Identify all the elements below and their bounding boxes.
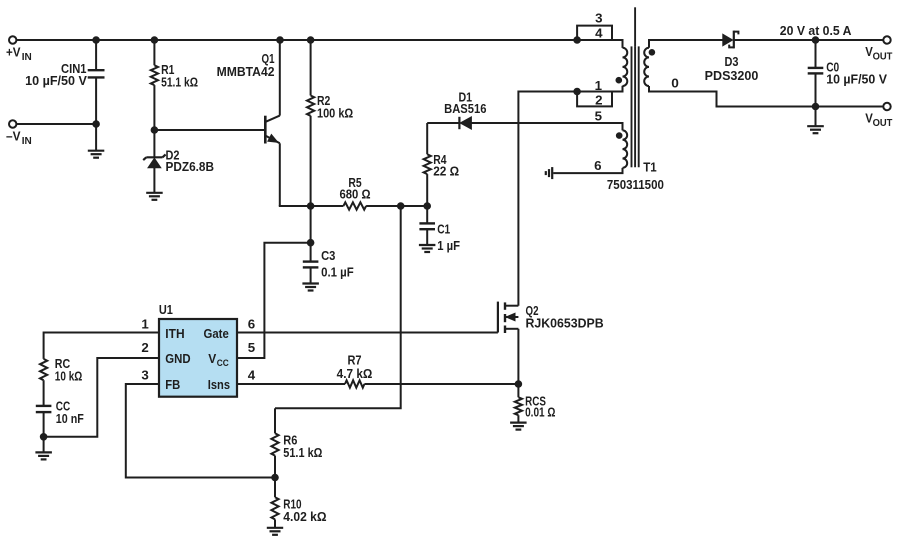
- label RC 10 kOhm: [55, 356, 83, 383]
- junction R2 bottom: [307, 202, 315, 210]
- transformer T1 pins 3-4 loop: [577, 26, 612, 40]
- label Q2 RJK0653DPB: [526, 303, 604, 331]
- resistor RC: [40, 359, 47, 405]
- svg-text:GND: GND: [165, 351, 191, 366]
- svg-text:750311500: 750311500: [607, 177, 664, 192]
- svg-text:+V: +V: [6, 45, 21, 59]
- junction C0 top: [812, 36, 820, 44]
- resistor R4: [424, 123, 431, 206]
- svg-text:C1: C1: [437, 222, 450, 237]
- ground (R10): [267, 528, 283, 535]
- label R4 22 Ohm: [433, 152, 459, 178]
- svg-text:0.1 µF: 0.1 µF: [321, 264, 354, 279]
- label R2 100 kOhm: [317, 93, 353, 121]
- svg-text:1: 1: [141, 316, 149, 331]
- label D3 PDS3200: [705, 54, 759, 83]
- svg-text:IN: IN: [22, 136, 32, 147]
- svg-text:0.01 Ω: 0.01 Ω: [525, 405, 556, 420]
- ground (CC): [35, 452, 52, 459]
- label CIN1: [25, 61, 87, 88]
- resistor R6: [271, 408, 278, 477]
- label C1 1uF: [437, 222, 460, 253]
- junction R5/R6 node: [397, 202, 405, 210]
- svg-text:10 µF/50 V: 10 µF/50 V: [25, 73, 87, 88]
- label RCS 0.01 Ohm: [525, 394, 556, 420]
- svg-text:BAS516: BAS516: [444, 101, 486, 116]
- wire Gate: pin 6 to Q2 gate: [237, 332, 498, 334]
- svg-text:CC: CC: [217, 358, 229, 369]
- svg-text:22 Ω: 22 Ω: [433, 163, 459, 178]
- svg-text:4: 4: [595, 26, 603, 41]
- svg-text:6: 6: [594, 158, 601, 173]
- junction CIN1 bottom -VIN: [92, 120, 100, 128]
- ground (C3): [302, 284, 319, 291]
- svg-text:U1: U1: [159, 302, 173, 317]
- T1 primary winding 4-1: [623, 40, 628, 92]
- label VOUT bottom: [865, 111, 892, 129]
- resistor R5: [343, 202, 366, 209]
- ground (RCS): [510, 423, 526, 430]
- T1 primary phase dot: [616, 77, 623, 84]
- label +VIN: [6, 45, 32, 63]
- wire FB: pin 3 to R6/R10 node: [126, 384, 275, 478]
- T1 secondary winding: [644, 48, 649, 86]
- junction Q1 collector top: [276, 36, 284, 44]
- label D1 BAS516: [444, 89, 486, 116]
- capacitor CIN1: [88, 40, 105, 151]
- U1 pin name VCC: [208, 351, 229, 369]
- junction pin1 wire: [573, 88, 581, 96]
- svg-text:20 V at 0.5 A: 20 V at 0.5 A: [780, 23, 852, 38]
- resistor RCS: [515, 384, 522, 423]
- T1 secondary phase dot: [649, 49, 656, 56]
- svg-text:1: 1: [595, 78, 603, 93]
- wire Q2 drain to transformer pins 1/2: [518, 86, 622, 306]
- capacitor C3: [303, 206, 319, 284]
- resistor R7: [345, 380, 364, 387]
- svg-text:10 µF/50 V: 10 µF/50 V: [826, 72, 887, 87]
- label CC 10 nF: [56, 399, 84, 426]
- wire Q1 base: [154, 129, 264, 131]
- terminal VOUT bottom: [883, 103, 890, 110]
- wire D3 cathode to VOUT: [734, 39, 884, 41]
- svg-text:2: 2: [595, 92, 602, 107]
- ground (D2): [146, 193, 163, 200]
- terminal -VIN: [9, 120, 16, 127]
- junction C3/Vcc node: [307, 239, 315, 247]
- MOSFET Q2: [498, 302, 519, 384]
- svg-text:RJK0653DPB: RJK0653DPB: [526, 315, 604, 330]
- wire R5R4 node down to R6: [275, 206, 401, 408]
- wire D1 cathode side: [471, 123, 622, 130]
- ground (T1 pin 6, rotated): [546, 167, 552, 179]
- terminal VOUT top: [883, 36, 890, 43]
- svg-text:ITH: ITH: [165, 326, 184, 341]
- label R7 4.7 kOhm: [337, 352, 373, 380]
- svg-text:3: 3: [595, 11, 602, 26]
- svg-text:10 nF: 10 nF: [56, 411, 84, 426]
- svg-text:IN: IN: [22, 52, 32, 63]
- wire Vcc: C3 node to pin 5: [237, 243, 311, 358]
- label Q1 MMBTA42: [217, 51, 275, 79]
- label R5 680 Ohm: [340, 175, 371, 201]
- ground (C0): [807, 126, 824, 133]
- label -VIN: [6, 129, 32, 147]
- junction CIN1 top: [92, 36, 100, 44]
- label VOUT top: [865, 45, 892, 63]
- junction R2 top: [307, 36, 315, 44]
- junction R1/D2/base: [151, 126, 159, 134]
- capacitor C1: [419, 206, 435, 245]
- T1 core: [632, 7, 639, 167]
- label D2 PDZ6.8B: [166, 147, 215, 174]
- svg-text:3: 3: [141, 368, 148, 383]
- wire secondary 0 to VOUT return: [649, 86, 883, 107]
- svg-text:FB: FB: [165, 377, 180, 392]
- diode D1: [459, 117, 471, 129]
- zener diode D2: [143, 130, 165, 193]
- svg-text:51.1 kΩ: 51.1 kΩ: [161, 74, 198, 89]
- svg-text:100 kΩ: 100 kΩ: [317, 106, 353, 121]
- svg-text:6: 6: [248, 316, 255, 331]
- transformer T1 pins 1-2 loop: [577, 92, 612, 107]
- T1 aux phase dot: [616, 132, 623, 139]
- svg-text:–V: –V: [6, 129, 21, 143]
- junction CC/GND node: [40, 433, 48, 441]
- wire emitter node y=206: [279, 205, 344, 207]
- svg-text:1 µF: 1 µF: [437, 238, 460, 253]
- resistor R1: [151, 40, 158, 130]
- junction R6/R10/FB: [271, 474, 279, 482]
- svg-text:C3: C3: [321, 248, 335, 263]
- diode D3: [723, 31, 739, 49]
- wire R7 to RCS node: [364, 383, 518, 385]
- label R6 51.1 kOhm: [283, 432, 322, 460]
- wire -VIN to CIN1: [17, 123, 96, 125]
- terminal +VIN: [9, 36, 16, 43]
- wire R5 to R4 node: [366, 205, 427, 207]
- svg-text:4.02 kΩ: 4.02 kΩ: [283, 509, 327, 524]
- label C0 10uF/50V: [826, 59, 887, 86]
- svg-text:PDS3200: PDS3200: [705, 68, 759, 83]
- svg-text:OUT: OUT: [873, 51, 893, 62]
- svg-text:D3: D3: [725, 54, 739, 69]
- wire top +VIN rail: [17, 40, 623, 48]
- wire ITH: pin 1 to RC: [44, 333, 159, 359]
- svg-text:Isns: Isns: [208, 377, 230, 392]
- svg-text:10 kΩ: 10 kΩ: [55, 368, 83, 383]
- svg-text:Gate: Gate: [204, 326, 229, 341]
- svg-text:51.1 kΩ: 51.1 kΩ: [283, 445, 322, 460]
- capacitor C0: [808, 40, 824, 126]
- label C3 0.1uF: [321, 248, 354, 279]
- ground (C1): [419, 245, 436, 252]
- label R10 4.02 kOhm: [283, 496, 327, 524]
- T1 aux winding 5-6: [553, 130, 627, 173]
- junction pin4 rail: [573, 36, 581, 44]
- junction C0 bottom: [812, 103, 820, 111]
- svg-text:MMBTA42: MMBTA42: [217, 64, 275, 79]
- svg-text:OUT: OUT: [873, 118, 893, 129]
- svg-text:4: 4: [248, 368, 256, 383]
- svg-text:680 Ω: 680 Ω: [340, 186, 371, 201]
- svg-text:5: 5: [248, 340, 256, 355]
- svg-text:V: V: [208, 351, 216, 366]
- svg-text:T1: T1: [643, 159, 657, 174]
- resistor R10: [271, 478, 278, 528]
- capacitor CC: [36, 406, 52, 453]
- resistor R2: [307, 40, 314, 206]
- ground (CIN1): [88, 151, 105, 158]
- op-amp U1 box: [159, 319, 237, 397]
- junction R1 top: [151, 36, 159, 44]
- wire D1 to transformer pin 5: [427, 122, 459, 124]
- junction RCS node: [515, 380, 523, 388]
- svg-text:4.7 kΩ: 4.7 kΩ: [337, 366, 373, 381]
- svg-text:5: 5: [595, 108, 603, 123]
- wire GND: pin 2 to CC node: [44, 358, 159, 437]
- svg-text:0: 0: [671, 76, 679, 91]
- wire secondary top to D3 anode: [649, 40, 723, 48]
- junction R4/C1 node: [423, 202, 431, 210]
- svg-text:2: 2: [141, 340, 148, 355]
- transistor Q1: [265, 40, 280, 206]
- label R1 51.1 kOhm: [161, 62, 198, 90]
- wire Isns: pin 4 to R7: [237, 383, 345, 385]
- svg-text:PDZ6.8B: PDZ6.8B: [166, 159, 215, 174]
